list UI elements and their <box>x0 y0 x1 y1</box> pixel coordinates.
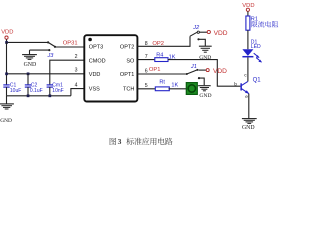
wire J3 lower contact to ground <box>30 49 50 51</box>
IC U1 body <box>84 35 137 101</box>
power port VDD (J2) <box>200 30 228 37</box>
junction (Cm1 bottom) <box>49 94 52 97</box>
junction (rail / VDD bus) <box>5 72 8 75</box>
switch J1 <box>186 64 200 79</box>
svg-text:b: b <box>234 82 237 88</box>
svg-text:2: 2 <box>75 54 78 60</box>
svg-text:VDD: VDD <box>89 72 101 78</box>
ground (J3) <box>22 50 37 68</box>
svg-text:OPT3: OPT3 <box>89 44 103 50</box>
svg-text:J3: J3 <box>47 53 55 59</box>
junction (C2 bottom) <box>27 94 30 97</box>
svg-text:VDD: VDD <box>1 30 13 36</box>
wire J1 to ground <box>199 78 204 85</box>
wire R1 to D1 <box>247 30 249 49</box>
svg-text:6: 6 <box>145 69 148 75</box>
capacitor Cm1 10nF <box>47 82 64 95</box>
svg-text:OPT1: OPT1 <box>120 72 134 78</box>
IC pin-1 mark <box>88 38 92 42</box>
svg-text:0.1uF: 0.1uF <box>30 88 43 94</box>
wire Rt to touch pad <box>169 88 187 90</box>
caption 图 3 标准应用电路 <box>110 137 173 146</box>
svg-text:R4: R4 <box>156 52 163 58</box>
svg-text:e: e <box>245 95 248 100</box>
capacitor C1 10uF <box>3 82 21 95</box>
switch J2 <box>190 25 200 41</box>
wire VDD top <box>5 41 48 44</box>
node OP31 / wire to pin 1 OPT3 <box>55 41 84 47</box>
svg-text:10nF: 10nF <box>52 88 63 94</box>
wire pin 2 CMOD to Cm1 <box>50 54 85 85</box>
wire pin 8 OP2 to J2 <box>137 36 190 47</box>
power port VDD (top-right) <box>242 3 254 16</box>
svg-text:7: 7 <box>145 54 148 60</box>
wire D1 to Q1 collector <box>247 57 249 81</box>
svg-text:VSS: VSS <box>89 86 100 92</box>
ground (bottom-left) <box>0 96 14 124</box>
wire VDD left rail <box>6 42 8 84</box>
svg-text:GND: GND <box>199 93 211 99</box>
power port VDD (J1) <box>199 68 228 75</box>
svg-text:GND: GND <box>199 55 211 61</box>
transistor Q1 <box>234 74 261 100</box>
junction (C2 top) <box>27 72 30 75</box>
svg-text:SO: SO <box>126 58 135 64</box>
wire pin 4 VSS to ground bus <box>71 83 84 96</box>
svg-text:5: 5 <box>145 83 148 89</box>
switch J3 <box>47 41 57 59</box>
svg-text:GND: GND <box>242 125 255 131</box>
capacitor C2 0.1uF <box>25 74 43 96</box>
wire J2 to ground <box>199 39 206 46</box>
svg-text:CMOD: CMOD <box>89 58 106 64</box>
svg-text:1K: 1K <box>171 82 178 88</box>
wire Q1 emitter to ground <box>248 94 250 119</box>
svg-text:10uF: 10uF <box>10 88 21 94</box>
svg-text:J2: J2 <box>192 25 200 31</box>
svg-text:LED: LED <box>251 44 261 50</box>
wire ground bus bottom <box>7 95 71 97</box>
wire R4 to Q1 base <box>168 60 240 87</box>
svg-text:3: 3 <box>118 137 122 146</box>
svg-text:OP31: OP31 <box>63 41 78 47</box>
svg-text:VDD: VDD <box>213 68 227 75</box>
svg-text:OP2: OP2 <box>152 41 164 47</box>
resistor R1 (current limiting) <box>246 16 258 30</box>
svg-text:Rt: Rt <box>159 80 165 86</box>
svg-text:3: 3 <box>75 68 78 74</box>
svg-text:TCH: TCH <box>123 86 134 92</box>
LED D1 <box>242 40 262 63</box>
svg-text:GND: GND <box>0 118 12 124</box>
resistor Rt 1K <box>137 80 178 91</box>
svg-text:J1: J1 <box>190 64 197 70</box>
svg-text:8: 8 <box>145 41 148 47</box>
touch pad (green) <box>186 83 197 95</box>
wire pin 3 VDD bus <box>7 68 85 74</box>
ground (J1) <box>198 86 211 100</box>
power port VDD (top-left) <box>1 30 13 43</box>
resistor R4 1K <box>137 52 175 61</box>
svg-text:OP1: OP1 <box>149 67 161 73</box>
svg-text:4: 4 <box>75 83 78 89</box>
svg-text:GND: GND <box>24 62 37 68</box>
svg-text:VDD: VDD <box>214 30 228 37</box>
wire pin 6 OP1 to J1 <box>137 67 186 74</box>
ground (Q1 emitter) <box>242 119 257 131</box>
ground (J2) <box>199 46 212 61</box>
svg-text:R1: R1 <box>251 16 258 22</box>
svg-text:OPT2: OPT2 <box>120 44 134 50</box>
label 限流电阻 <box>251 21 278 27</box>
svg-text:Q1: Q1 <box>253 77 262 83</box>
